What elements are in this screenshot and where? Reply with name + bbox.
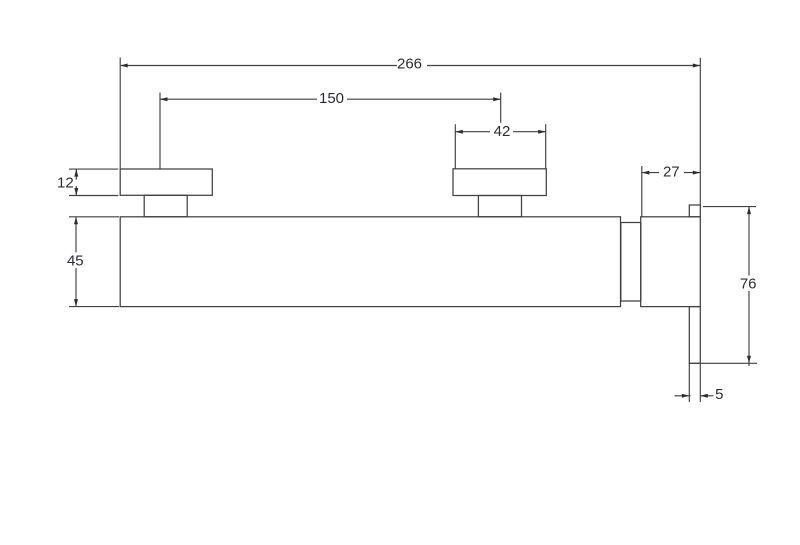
- right mounting block: [478, 196, 521, 217]
- left mounting plate: [120, 169, 212, 195]
- dimension 45: [69, 217, 119, 307]
- wall plate top notch: [689, 205, 700, 217]
- svg-text:150: 150: [319, 90, 344, 107]
- svg-text:42: 42: [494, 123, 511, 140]
- dimension 12: [69, 169, 118, 195]
- dimension 266: [120, 58, 700, 206]
- dimension 27: [642, 166, 701, 217]
- dimension 76: [689, 207, 757, 366]
- dimension 5: [675, 363, 714, 402]
- svg-text:12: 12: [57, 174, 74, 191]
- svg-text:27: 27: [663, 163, 680, 180]
- dimension 150: [160, 93, 501, 170]
- svg-text:266: 266: [397, 56, 422, 73]
- connector piece: [621, 223, 641, 302]
- svg-text:76: 76: [740, 276, 757, 293]
- left mounting block: [144, 195, 187, 217]
- wall bracket: [641, 217, 701, 307]
- wall plate lower tail: [689, 307, 700, 364]
- svg-text:45: 45: [67, 253, 84, 270]
- dimension 42: [455, 124, 545, 169]
- bar body: [120, 217, 620, 307]
- svg-text:5: 5: [715, 386, 723, 403]
- right mounting plate: [453, 169, 546, 196]
